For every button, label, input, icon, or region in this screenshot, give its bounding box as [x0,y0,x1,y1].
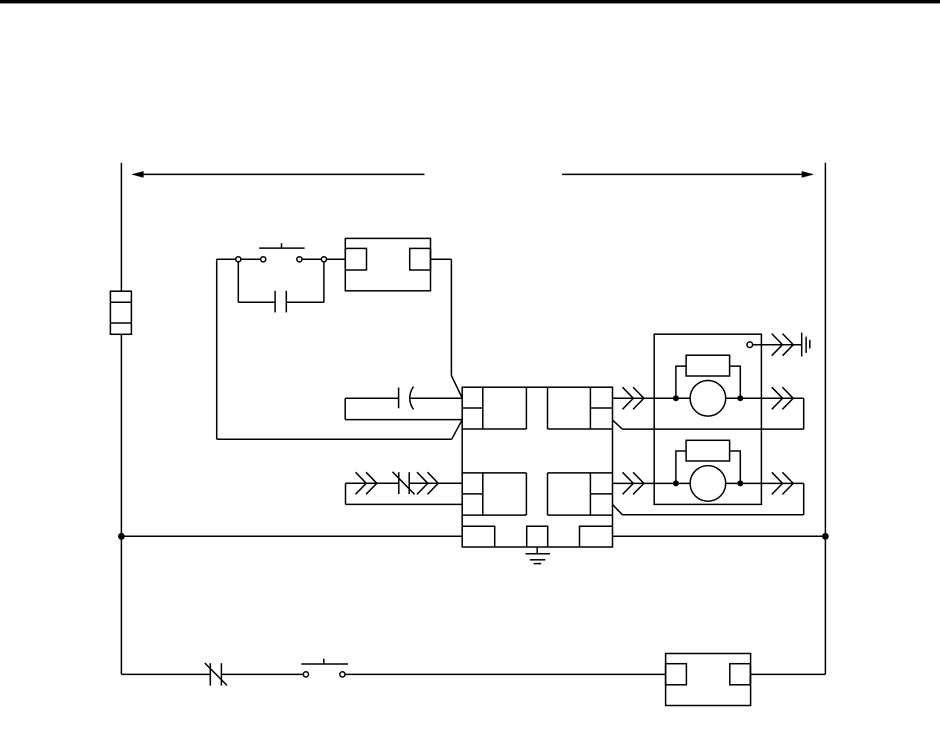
wire: right rail [824,163,826,675]
wire: M2 to exit chevrons [726,482,804,484]
junction dot M2 right [737,480,743,486]
R1 right stub [730,366,741,398]
wire: left rail lower segment [120,334,122,674]
switch S1 actuator stem [281,243,283,248]
J1 bottom-left cell right edge [525,473,527,515]
wire: diagonal into block pin 1 [451,376,462,398]
junction dot M2 left [673,480,679,486]
wire to capacitor C1 [238,301,275,303]
wire: diagonal into block pin 2 [452,420,463,440]
wire: J1 to motor M2 [613,482,691,484]
connector chevrons J1 to M1 [623,387,644,409]
connector chevrons on pin3 lead [356,472,377,494]
wire: drop from S1 t1 [237,262,239,302]
switch S1 terminal 4 [321,257,326,262]
switch S1 terminal 2 [261,257,266,262]
dimension arrow left (head) [131,171,143,178]
junction dot bus right [822,533,829,540]
motor M2 [690,466,726,502]
wire: pin3 loop to block pin 4 [346,503,463,505]
chassis ground bar 1 [801,333,803,357]
capacitor C2 plate (curved) [410,387,414,410]
wire: case to chassis ground [753,344,802,346]
relay K2 left terminal cavity [666,664,687,685]
J1 bottom-left group top [462,472,526,474]
dimension arrow right (line) [562,173,812,175]
wire: drop from K1 output [450,259,452,375]
fuse F1 lower element line [110,322,131,324]
resistor R2 body [686,440,730,461]
motor enclosure [654,334,761,504]
ground stem under J1 [536,547,538,554]
relay K1 right terminal cavity [410,248,431,270]
J1 top-left group bottom [462,428,526,430]
J1 bottom-right group top [548,472,613,474]
switch S1 terminal 3 [297,257,302,262]
dimension arrow left (line) [134,173,425,175]
J1 top-left cell right edge [525,387,527,429]
dimension arrow right (head) [802,171,814,178]
wire: capacitor C2 left lead [345,397,398,399]
wire: M1 return diagonal into J1 [613,420,623,429]
contact N2 bar right [220,663,222,685]
relay K1 left terminal cavity [345,248,366,270]
wire: M2 return run [622,514,803,516]
switch S1 actuator bar [259,247,304,249]
capacitor C1 plate left [274,291,276,313]
fuse F1 upper element line [110,301,131,303]
J1 cavity top-left mid line [462,407,483,409]
wire: drop from S1 t4 [323,262,325,302]
inline contact symbol N1 slash [393,472,415,495]
J1 cavity bottom-right mid line [590,493,612,495]
wire: M1 return drop [803,398,805,429]
ground bar 1 [526,553,551,555]
wire: M1 return run [622,428,803,430]
wire: M2 return drop [803,483,805,514]
J1 cavity col bottom-right divider [589,473,591,515]
wire: branch riser left of S1 [216,259,218,439]
J1 cavity top-right mid line [590,407,612,409]
switch S2 actuator bar [301,663,348,665]
relay K1 body [345,238,430,290]
wire: M2 return diagonal into J1 [613,505,623,515]
J1 cavity col bottom-left divider [482,473,484,515]
J1 base cavity middle [527,526,548,547]
relay K2 body [666,654,751,706]
wire S1 t3-t4 [302,258,321,260]
wire: pin3 loop drop [345,483,347,504]
wire: harness lead into block pin 3 [346,482,399,484]
wire: long return at y439 [217,438,452,440]
wire: C2 loop to block pin 2 [345,419,462,421]
inline contact symbol N1 bar right [408,472,410,494]
R2 right stub [730,451,741,483]
connector chevrons after N1 [417,472,438,494]
J1 base cavity right [580,526,613,547]
resistor R1 body [686,355,730,376]
switch S2 terminal 1 [303,672,308,677]
chassis ground bar 3 [809,340,811,349]
fuse F1 body [110,291,131,334]
inline contact symbol N1 bar left [398,472,400,494]
J1 bottom-left group bottom [462,514,526,516]
ground bar 3 [534,563,542,565]
wire: J1 to motor M1 [613,397,691,399]
bus wire right of J1 [613,535,826,537]
page top rule [0,0,940,3]
contact N2 slash [205,663,227,685]
junction dot M1 right [737,395,743,401]
wire K1 output [431,258,452,260]
R1 left stub [676,366,686,398]
chassis ground bar 2 [805,337,807,353]
wire: pin3 lead after N1 [409,482,462,484]
connector chevrons M2 exit [772,472,793,494]
connector chevrons J1 to M2 [623,472,644,494]
capacitor C1 plate right [285,291,287,313]
wire: bottom run to contact [121,673,210,675]
contact N2 bar left [209,663,211,685]
junction dot M1 left [673,395,679,401]
wire: left rail upper segment [120,163,122,291]
wire S1 t1-t2 [241,258,261,260]
relay K2 right terminal cavity [730,664,751,685]
wire: S2 to relay K2 [345,673,666,675]
junction dot bus left [118,533,125,540]
connector chevrons M1 exit [772,387,793,409]
wire: C2 loop drop [344,398,346,419]
J1 bottom-right cell left edge [547,473,549,515]
wire C1 to riser [286,301,324,303]
wire: feed to switch S1 [217,258,236,260]
J1 top-right cell left edge [547,387,549,429]
wire: K2 to right rail [751,673,826,675]
motor M1 [690,381,726,417]
J1 bottom-right group bottom [548,514,613,516]
J1 base cavity left [462,526,495,547]
switch S1 terminal 1 [236,257,241,262]
J1 cavity col top-left divider [482,387,484,429]
J1 top-right group bottom [548,428,613,430]
connector block J1 outline [462,387,612,547]
wire S1 t4 to relay K1 [327,258,346,260]
wire: M1 to exit chevrons [726,397,804,399]
R2 left stub [676,451,686,483]
ground bar 2 [530,559,546,561]
capacitor C2 plate (flat) [398,388,400,409]
J1 cavity col top-right divider [589,387,591,429]
bus wire left of J1 [121,535,462,537]
J1 cavity bottom-left mid line [462,493,483,495]
connector chevrons case ground [772,334,794,356]
wire: capacitor C2 right lead to block pin 1 [411,397,463,399]
switch S2 actuator stem [323,659,325,664]
switch S2 terminal 2 [340,672,345,677]
case terminal (open circle) [747,342,753,348]
wire: contact to switch S2 [221,673,303,675]
